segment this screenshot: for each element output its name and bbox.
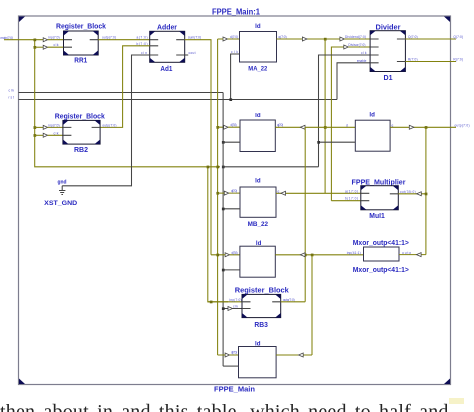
wire ld5.q to Mxor.in <box>275 254 363 256</box>
buffer ld6 in1 <box>225 353 230 357</box>
buffer net connector Mxor.out <box>417 253 422 257</box>
buffer net connector Mul1.out <box>417 192 422 196</box>
wire gnd to Ad1.cin <box>62 55 150 186</box>
wire clk chain horizontal y=167 <box>223 166 318 168</box>
svg-text:d(7:0): d(7:0) <box>231 351 237 355</box>
junction (223.1,269.9) <box>222 269 225 272</box>
svg-text:Q(7:0): Q(7:0) <box>408 35 418 39</box>
svg-text:Mxor_outp<41:1>: Mxor_outp<41:1> <box>353 267 409 274</box>
buffer ld5 in1 <box>225 253 230 257</box>
svg-text:a(17:0): a(17:0) <box>345 189 358 193</box>
input port clk <box>9 89 224 93</box>
wire clk vertical x=223.1 <box>222 93 224 367</box>
svg-text:R(7:0): R(7:0) <box>453 58 463 62</box>
wire Divider.clk from clk chain <box>319 55 371 167</box>
block ld6 bottom <box>239 341 277 378</box>
junction (325.1,39) <box>324 38 327 41</box>
wire bus to ld5.in1 <box>211 254 240 256</box>
junction (217.6,254.8) <box>216 254 219 257</box>
svg-text:MB_22: MB_22 <box>248 221 269 228</box>
wire ld5.clk from clk chain <box>223 269 240 271</box>
svg-text:a(7:0): a(7:0) <box>137 36 148 40</box>
wire Divider.Q to output port <box>405 38 456 40</box>
block D1 Divider <box>370 24 405 82</box>
junction (223.1,208.8) <box>222 208 225 211</box>
svg-text:clk: clk <box>9 89 15 93</box>
buffer Divider dividend <box>340 37 345 41</box>
svg-text:b(17:0): b(17:0) <box>345 197 358 201</box>
svg-text:inp(7:0): inp(7:0) <box>230 298 242 302</box>
input port rst <box>9 96 338 100</box>
block RB2 Register_Block <box>55 114 105 154</box>
svg-text:D1: D1 <box>384 75 393 82</box>
svg-text:gnd: gnd <box>58 180 67 186</box>
svg-text:Q(7:0): Q(7:0) <box>453 35 463 39</box>
block MB_22 ld <box>240 179 276 228</box>
wire ld4.clk from clk <box>319 141 356 143</box>
buffer RR1 in2 <box>43 45 47 49</box>
junction (34.7,47.2) <box>34 46 37 49</box>
junction (34.7,39.7) <box>34 39 37 42</box>
svg-text:outp(7:0): outp(7:0) <box>102 36 116 40</box>
svg-text:Ad1: Ad1 <box>160 66 172 73</box>
wire ld2.clk from clk chain <box>223 141 240 143</box>
svg-text:MA_22: MA_22 <box>248 65 267 72</box>
buffer net connector on MA out <box>302 37 307 41</box>
wire riser x=305.2 ld2.q down to RB3.out <box>304 127 306 301</box>
junction (217.6,193.1) <box>216 192 219 195</box>
svg-text:RR1: RR1 <box>74 58 87 65</box>
junction (425.9,127.3) <box>425 126 428 129</box>
svg-text:Mxor_outp<41:1>: Mxor_outp<41:1> <box>353 240 409 247</box>
svg-text:d(7:0): d(7:0) <box>232 251 238 255</box>
wire ld4.q to outp port <box>390 126 456 128</box>
highlight smudge <box>449 398 464 404</box>
buffer RB3 in2 <box>228 307 233 311</box>
buffer net connector ld2.q <box>300 125 305 129</box>
wire Mul1.out to tap <box>398 193 426 195</box>
wire to RB3.in1 <box>208 301 242 303</box>
wire RB2 in row <box>35 126 43 128</box>
svg-text:RB2: RB2 <box>74 147 88 154</box>
buffer net connector ld4.q <box>409 125 414 129</box>
svg-text:rst: rst <box>9 96 15 100</box>
junction (223.1,142.2) <box>222 141 225 144</box>
svg-text:clk: clk <box>361 51 367 55</box>
wire MB_22.clk from clk chain <box>223 208 240 210</box>
junction (207.8,165.2) <box>207 166 210 169</box>
junction (318.5,142.2) <box>317 141 320 144</box>
svg-text:Dividend(7:0): Dividend(7:0) <box>345 35 366 39</box>
svg-text:cout: cout <box>189 51 196 55</box>
svg-text:Mul1: Mul1 <box>369 213 385 220</box>
wire Mxor.out to tap <box>399 254 426 256</box>
svg-text:ld: ld <box>255 113 261 119</box>
wire MB_22.q to Mul1.a <box>276 192 361 194</box>
buffer net connector ld6.q <box>299 353 304 357</box>
svg-text:ld: ld <box>255 24 261 30</box>
wire RB2.outp up to Ad1.b <box>100 46 150 128</box>
wire dividend tap down x=325.1 <box>324 39 326 193</box>
wire RB3.outp east to divisor riser <box>281 301 306 303</box>
wire RR1 clk row <box>35 46 43 48</box>
buffer RB2 in1 <box>43 125 47 129</box>
wire RR1.outp to Ad1.a <box>98 39 150 41</box>
wire Mul1.b from x=331.4 <box>331 200 360 202</box>
wire ld6.clk from clk chain <box>223 365 238 367</box>
junction (223.1,167) <box>222 166 225 169</box>
block RR1 Register_Block <box>56 23 106 64</box>
svg-text:out(35:0): out(35:0) <box>400 190 416 194</box>
block ld2 <box>240 113 275 152</box>
svg-text:d(7:0): d(7:0) <box>230 35 238 39</box>
svg-text:ld: ld <box>255 179 261 185</box>
wire bus branch x=207.8 to RB3 <box>208 167 228 302</box>
svg-text:RB3: RB3 <box>254 322 268 329</box>
block Mul1 FPPE_Multiplier <box>352 179 406 220</box>
wire Divider.R to output port <box>405 61 456 63</box>
wire Divider.divisor from x=331.4 <box>331 47 343 201</box>
wire sum riser to ld6.in1 <box>218 354 239 356</box>
svg-text:XST_GND: XST_GND <box>44 200 77 207</box>
junction (325.1,127.3) <box>324 126 327 129</box>
wire MA_22.clk from rst net <box>231 54 240 100</box>
body text fragment cut at bottom <box>0 401 474 412</box>
svg-text:d: d <box>346 123 348 127</box>
buffer MB_22 in1 <box>224 191 229 195</box>
junction (34.7,127.4) <box>34 126 37 129</box>
svg-text:d(7:0): d(7:0) <box>231 189 237 193</box>
svg-text:R(7:0): R(7:0) <box>408 58 418 62</box>
wire bus to ld2.in1 <box>218 126 240 128</box>
junction (312,254.8) <box>311 254 314 257</box>
buffer RR1 in1 <box>43 38 47 42</box>
svg-text:FPPE_Main:1: FPPE_Main:1 <box>212 8 261 17</box>
svg-text:q: q <box>278 189 280 193</box>
wire bus to MB_22.d <box>218 192 240 194</box>
junction (230.6,99.5) <box>229 98 232 101</box>
wire ld2.q to ld4.in <box>275 126 355 128</box>
wire clk to RB3.in2 <box>223 308 242 310</box>
wire tap x=312 down to ld6 out <box>311 255 313 355</box>
svg-text:q: q <box>392 123 394 127</box>
wire main bus top to MA_22.d <box>218 38 240 40</box>
wire MA_22.q to Divider.dividend <box>277 38 340 40</box>
svg-text:q(7:0): q(7:0) <box>277 123 283 127</box>
wire RB2 clk row <box>35 134 43 136</box>
wire RR1 pins <box>48 40 64 48</box>
wire into dividend pin <box>344 38 370 40</box>
block ld4 right <box>355 112 390 151</box>
wire main bus vertical x=34.7 <box>35 40 220 167</box>
wire outp tap down x=425.9 <box>425 127 427 254</box>
svg-text:ld: ld <box>369 112 375 118</box>
svg-text:outp(7:0): outp(7:0) <box>102 123 116 127</box>
svg-text:Register_Block: Register_Block <box>235 288 289 295</box>
block Mxor_outp <box>353 240 409 274</box>
junction (305.2,254.8) <box>304 254 307 257</box>
wire Ad1.cout stub <box>185 54 189 56</box>
svg-text:outp(7:0): outp(7:0) <box>283 298 295 302</box>
buffer net connector ld5.q <box>300 253 305 257</box>
buffer net connector MB_22.q <box>281 191 286 195</box>
buffer RB2 in2 <box>43 133 47 137</box>
input port inp(7:0) <box>1 36 44 40</box>
svg-text:d(7:0): d(7:0) <box>231 123 237 127</box>
svg-text:Register_Block: Register_Block <box>56 23 106 30</box>
svg-text:Divisor(7:0): Divisor(7:0) <box>348 43 365 47</box>
wire into divisor pin <box>348 46 370 48</box>
buffer MA_22 in1 <box>223 37 228 41</box>
buffer Divider divisor <box>344 45 349 49</box>
svg-text:clk: clk <box>233 305 238 309</box>
wire main bus vertical x=217.6 <box>217 39 219 355</box>
gnd symbol XST_GND <box>44 180 77 207</box>
wire RB2 pins <box>48 127 63 135</box>
block ld5 middle <box>240 241 275 277</box>
svg-text:inp(7:0): inp(7:0) <box>49 123 60 127</box>
wire ld6.q east then north <box>276 354 312 356</box>
wire Divider.ce from rst net <box>337 63 370 100</box>
junction (217.6,127.2) <box>216 126 219 129</box>
junction (425.9,193.8) <box>425 193 428 196</box>
svg-text:inp(7:0): inp(7:0) <box>49 36 60 40</box>
block MA_22 ld <box>240 24 277 73</box>
svg-text:outp(7:0): outp(7:0) <box>455 123 470 127</box>
svg-text:q(7:0): q(7:0) <box>279 35 287 39</box>
svg-text:inp(41:1): inp(41:1) <box>347 251 361 255</box>
junction (211,301.8) <box>210 301 213 304</box>
block Ad1 Adder <box>150 24 185 73</box>
svg-text:Adder: Adder <box>157 24 177 31</box>
svg-text:FPPE_Main: FPPE_Main <box>214 384 255 393</box>
svg-text:clk: clk <box>54 43 59 47</box>
svg-text:sum(7:0): sum(7:0) <box>188 36 201 40</box>
svg-text:enable: enable <box>357 59 367 63</box>
junction (223.1,308.5) <box>222 307 225 310</box>
svg-text:clk: clk <box>54 131 59 135</box>
junction (34.7,135.3) <box>34 134 37 137</box>
svg-text:Register_Block: Register_Block <box>55 114 105 121</box>
junction (217.6,165.2) <box>216 166 219 169</box>
buffer ld2 in1 <box>224 125 229 129</box>
block RB3 Register_Block <box>235 288 289 330</box>
wire Ad1.sum down middle channel <box>185 40 211 255</box>
